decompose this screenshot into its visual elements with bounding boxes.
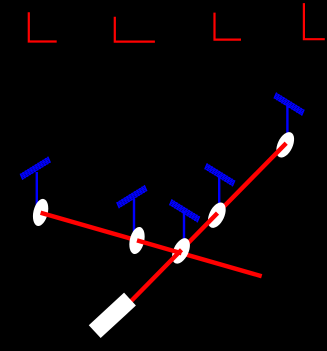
grating G1 (20, 157, 50, 180)
mirror M2 (127, 225, 147, 255)
mirror M3 (168, 235, 193, 266)
mirror M4 (204, 200, 229, 231)
stem wire G2-M2 (133, 199, 135, 240)
axes A2 (115, 17, 155, 42)
stem wire G4-M4 (218, 176, 220, 215)
grating G4 (205, 163, 235, 186)
beam M1 to M2 (41, 213, 137, 241)
stem wire G3-M3 (183, 211, 185, 250)
grating G2 (117, 185, 147, 208)
beam M3 to M4 (182, 213, 218, 250)
beam M3 to output (182, 253, 262, 276)
grating G3 (170, 199, 200, 222)
mirror M5 (273, 129, 298, 160)
beam M2 to M3 (137, 240, 182, 253)
axes A3 (215, 13, 242, 40)
stem wire G1-M1 (36, 172, 38, 212)
beam laser to M3 (113, 250, 182, 320)
axes A4 (304, 3, 325, 39)
laser box (89, 293, 136, 338)
beam M4 to M5 (218, 143, 287, 213)
axes A1 (29, 12, 57, 41)
mirror M1 (30, 197, 50, 227)
stem wire G5-M5 (286, 104, 288, 144)
grating G5 (274, 93, 304, 116)
